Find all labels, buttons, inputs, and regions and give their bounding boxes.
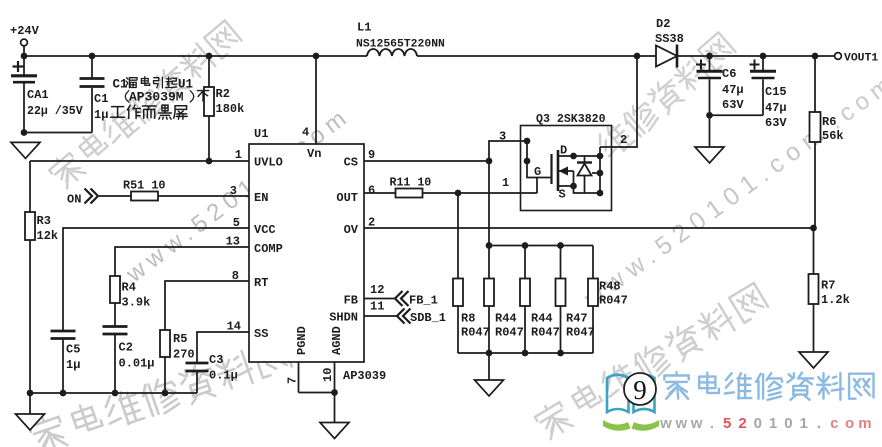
svg-text:w: w [674, 415, 687, 432]
svg-text:R47: R47 [566, 312, 588, 326]
svg-text:SS: SS [254, 327, 268, 341]
resistor R47 R047 [560, 246, 562, 279]
wire rail L1-D2 [417, 55, 656, 57]
Q3 drain bus [599, 147, 601, 193]
svg-text:4: 4 [302, 126, 309, 140]
wire +24V rail [24, 55, 367, 57]
svg-text:10: 10 [321, 368, 335, 382]
svg-text:m: m [858, 415, 871, 432]
wire sense top rail [489, 245, 593, 247]
svg-text:7: 7 [286, 377, 300, 384]
wire OUT to gate [423, 192, 538, 194]
node sense bot 1 [486, 350, 493, 357]
svg-text:AP3039M: AP3039M [129, 90, 184, 105]
wire sense bottom rail [458, 352, 593, 354]
svg-text:C5: C5 [66, 343, 80, 357]
Q3 drain lead [558, 155, 600, 157]
svg-text:C1: C1 [113, 78, 128, 92]
svg-text:3.9k: 3.9k [122, 296, 151, 310]
wire UVLO pin1 [30, 160, 249, 162]
node rail-C6 [706, 53, 713, 60]
svg-text:9: 9 [633, 375, 647, 405]
svg-text:RT: RT [254, 276, 268, 290]
svg-text:3: 3 [499, 130, 506, 144]
svg-text:OUT: OUT [336, 191, 358, 205]
svg-text:Q3 2SK3820: Q3 2SK3820 [536, 113, 606, 126]
svg-text:R5: R5 [173, 332, 187, 346]
svg-text:R11 10: R11 10 [390, 177, 432, 190]
logo site name [664, 372, 873, 400]
wire C6-C15 bottom [710, 114, 764, 116]
svg-text:SHDN: SHDN [329, 311, 358, 325]
Q3 body arrow lead [558, 170, 574, 172]
svg-text:R3: R3 [37, 214, 51, 228]
Q3 channel bar [557, 150, 560, 191]
svg-text:ON: ON [67, 193, 81, 207]
capacitor C6 47u/63V [709, 56, 711, 70]
capacitor C3 0.1u [186, 362, 209, 365]
svg-text:UVLO: UVLO [254, 156, 283, 170]
svg-text:R047: R047 [531, 326, 560, 340]
ground sense bank [488, 353, 490, 380]
Q3 body diode [584, 156, 586, 163]
resistor R2 180k [208, 56, 210, 87]
svg-text:c: c [830, 415, 838, 432]
capacitor C15 47u/63V [762, 56, 764, 70]
capacitor C2 0.01u [103, 325, 128, 328]
svg-text:.: . [710, 415, 714, 432]
svg-text:R51 10: R51 10 [123, 179, 165, 193]
wire CA1-C1 bottom [24, 132, 92, 134]
U1 PGND pin7 [298, 362, 300, 393]
Q3 gate entry nodes [526, 141, 528, 161]
SDB_1 signal [364, 315, 397, 317]
resistor R44a R047 [488, 246, 490, 279]
svg-text:Vn: Vn [307, 147, 321, 161]
svg-text:0.1µ: 0.1µ [209, 369, 238, 383]
resistor R4 3.9k [110, 276, 120, 303]
svg-text:1.2k: 1.2k [821, 293, 850, 307]
svg-text:FB: FB [344, 294, 358, 308]
svg-text:0: 0 [784, 415, 792, 432]
node rail-C5 [60, 390, 67, 397]
svg-text:C6: C6 [722, 67, 736, 81]
svg-text:w: w [690, 415, 703, 432]
svg-text:R48: R48 [599, 280, 621, 294]
resistor R5 270 [160, 330, 170, 357]
svg-text:VCC: VCC [254, 223, 276, 237]
node rail-C1 [89, 53, 96, 60]
resistor R3 12k [29, 161, 31, 212]
node sense top 1 [486, 242, 493, 249]
Q3 pin1 gate wire [536, 178, 538, 194]
svg-text:12k: 12k [37, 229, 59, 243]
svg-text:C2: C2 [119, 341, 133, 355]
svg-text:1µ: 1µ [94, 108, 108, 122]
op-amp U1 AP3039 body [249, 144, 364, 362]
logo book icon and circled 9 [603, 373, 659, 431]
node rail-R2 [206, 53, 213, 60]
svg-text:.: . [817, 415, 821, 432]
wire RT pin8 [165, 281, 249, 330]
resistor R6 56k [814, 56, 816, 112]
svg-text:SDB_1: SDB_1 [410, 311, 446, 325]
capacitor C1 1u [91, 56, 93, 78]
ground left rail [29, 393, 31, 414]
svg-text:1µ: 1µ [66, 358, 80, 372]
svg-text:R2: R2 [216, 87, 230, 101]
svg-text:CA1: CA1 [27, 88, 49, 102]
transistor Q3 2SK3820 box [521, 126, 612, 211]
ground U1 [320, 423, 349, 439]
node CA1 bottom [21, 129, 28, 136]
node rail-C2 [112, 390, 119, 397]
svg-text:U1: U1 [254, 127, 268, 141]
node rail-R3 [27, 390, 34, 397]
node rail-Q3pin2 [634, 53, 641, 60]
svg-text:+24V: +24V [10, 24, 40, 38]
svg-text:COMP: COMP [254, 242, 283, 256]
node rail-C15 [760, 53, 767, 60]
svg-text:R047: R047 [599, 294, 628, 308]
capacitor C5 1u [51, 330, 76, 333]
wire VCC pin5 [63, 228, 249, 330]
svg-text:o: o [845, 415, 854, 432]
resistor R7 1.2k [813, 228, 815, 274]
VOUT1 terminal [835, 53, 842, 60]
svg-text:D2: D2 [656, 17, 670, 31]
svg-text:R047: R047 [495, 326, 524, 340]
resistor R51 10 [131, 192, 158, 201]
node sense top 3 [557, 242, 564, 249]
svg-text:12: 12 [370, 283, 384, 297]
wire Q3 pin3 riser [489, 141, 527, 246]
wire bottom ground rail [30, 392, 197, 394]
svg-text:AGND: AGND [330, 326, 344, 355]
node OV-R6-R7 [810, 225, 817, 232]
ground CA1 [11, 142, 40, 158]
svg-text:EN: EN [254, 191, 268, 205]
svg-text:R7: R7 [821, 279, 835, 293]
svg-text:R44: R44 [495, 312, 517, 326]
svg-text:1: 1 [800, 415, 808, 432]
svg-text:FB_1: FB_1 [409, 294, 438, 308]
resistor R8 R047 [457, 193, 459, 279]
inductor L1 [367, 49, 417, 56]
svg-text:56k: 56k [822, 129, 844, 143]
svg-text:R047: R047 [566, 326, 595, 340]
U1 pin4 Vn wire [315, 56, 317, 144]
wire rail D2-VOUT [677, 55, 835, 57]
svg-text:47µ: 47µ [722, 83, 744, 97]
node sense bot 2 [522, 350, 529, 357]
annotation line2 [125, 91, 129, 103]
svg-text:2: 2 [738, 415, 746, 432]
svg-text:SS38: SS38 [655, 32, 684, 46]
svg-text:NS12565T220NN: NS12565T220NN [356, 39, 445, 51]
wire SS pin14 [197, 332, 249, 362]
Q3 source lead [558, 185, 574, 187]
svg-text:w: w [659, 415, 672, 432]
node UVLO-R2 [206, 158, 213, 165]
resistor R11 10 [396, 189, 423, 198]
svg-text:1: 1 [769, 415, 777, 432]
svg-text:5: 5 [723, 415, 731, 432]
svg-text:2: 2 [620, 133, 627, 147]
node OUT-R8 [455, 190, 462, 197]
svg-text:1: 1 [502, 176, 509, 190]
wire OUT pin6 segment [364, 192, 396, 194]
ground R7 [799, 352, 828, 368]
FB_1 signal [364, 298, 395, 300]
svg-text:63V: 63V [765, 116, 787, 130]
svg-text:22µ /35V: 22µ /35V [27, 105, 83, 118]
wire CS pin9 [364, 160, 489, 162]
svg-text:63V: 63V [722, 98, 744, 112]
svg-text:9: 9 [368, 148, 375, 162]
svg-text:CS: CS [344, 156, 358, 170]
svg-text:1: 1 [235, 148, 242, 162]
svg-text:0.01µ: 0.01µ [119, 357, 155, 371]
wire OV pin2 [364, 227, 813, 229]
svg-text:AP3039: AP3039 [343, 369, 386, 383]
svg-text:C1: C1 [94, 92, 108, 106]
node C6 bottom [706, 112, 713, 119]
svg-text:OV: OV [344, 223, 359, 237]
node CS riser [486, 158, 493, 165]
svg-text:11: 11 [370, 300, 384, 314]
node rail-R5 [162, 390, 169, 397]
diode D2 SS38 [656, 46, 677, 67]
node rail-R6 [812, 53, 819, 60]
svg-text:R44: R44 [531, 312, 553, 326]
svg-text:C3: C3 [209, 353, 223, 367]
node rail-CA1 [21, 53, 28, 60]
node sense bot 3 [557, 350, 564, 357]
svg-text:R047: R047 [461, 326, 490, 340]
svg-text:C15: C15 [765, 85, 787, 99]
node sense top 2 [522, 242, 529, 249]
svg-text:D: D [560, 144, 567, 158]
logo url [659, 415, 871, 432]
resistor R48 R047 [592, 246, 594, 279]
capacitor CA1 22u/35V [23, 56, 25, 75]
svg-text:R8: R8 [461, 312, 475, 326]
wire COMP pin13 [115, 247, 249, 276]
svg-text:S: S [559, 188, 566, 202]
svg-text:R6: R6 [822, 115, 836, 129]
svg-text:0: 0 [754, 415, 762, 432]
annotation line3 [111, 105, 188, 119]
svg-text:47µ: 47µ [765, 101, 787, 115]
U1 AGND pin10 [334, 362, 336, 423]
ground output caps [709, 115, 711, 147]
resistor R44b R047 [524, 246, 526, 279]
svg-text:L1: L1 [357, 21, 371, 35]
node rail-Vn [313, 53, 320, 60]
svg-text:180k: 180k [216, 102, 245, 116]
svg-text:R4: R4 [122, 281, 136, 295]
svg-text:270: 270 [173, 348, 195, 362]
Q3 gate bar [550, 154, 552, 184]
svg-text:6: 6 [368, 184, 375, 198]
+24V input terminal [21, 39, 28, 46]
svg-text:VOUT1: VOUT1 [844, 53, 878, 65]
svg-text:PGND: PGND [295, 326, 309, 355]
svg-text:G: G [534, 165, 541, 179]
